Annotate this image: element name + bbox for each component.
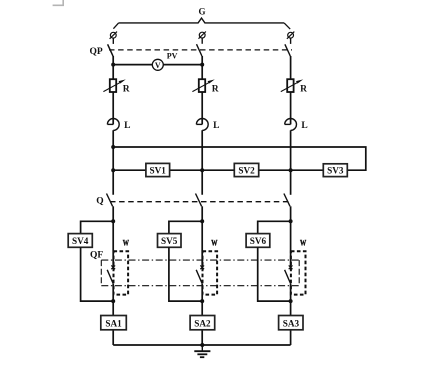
svg-text:L: L: [301, 121, 307, 131]
return wire from SV5: [169, 247, 202, 301]
breaker Q blade pole 3: [284, 194, 290, 207]
svg-text:Q: Q: [96, 197, 103, 207]
svg-text:L: L: [213, 121, 219, 131]
svg-text:SA1: SA1: [105, 318, 122, 328]
node tie-line feeder1: [111, 145, 115, 149]
breaker QF contact cross pole 1: [111, 265, 115, 269]
bottom earth bus: [113, 344, 290, 346]
node tap feeder1: [111, 219, 115, 223]
voltmeter line: [113, 64, 202, 66]
svg-text:R: R: [212, 85, 219, 95]
withdrawable cell dashed box 2: [203, 251, 218, 294]
node return feeder2: [200, 299, 204, 303]
node earth bus: [200, 343, 204, 347]
node SV-line feeder3: [289, 168, 293, 172]
linkage frame right edge: [298, 260, 300, 286]
resistor R2: [192, 79, 214, 92]
node PV-line feeder2: [200, 63, 204, 67]
wire bus to QP pole 3: [284, 23, 290, 29]
svg-text:SA2: SA2: [194, 318, 211, 328]
disconnector QP blade pole 3: [285, 44, 290, 56]
wire QP circle stub pole 2: [201, 38, 203, 44]
upper tie line to SV3: [113, 147, 366, 170]
breaker QF blade pole 3: [285, 270, 291, 284]
switch box SA2: [190, 316, 215, 330]
voltmeter PV: [152, 59, 163, 70]
svg-text:QP: QP: [90, 47, 103, 57]
resistor R3: [281, 79, 303, 92]
svg-text:SV2: SV2: [238, 165, 255, 175]
linkage frame top dash-dot line: [101, 259, 299, 261]
reactor L1: [107, 119, 119, 131]
wire QP circle stub pole 1: [112, 38, 114, 44]
svg-text:L: L: [124, 121, 130, 131]
disconnector QP contact circle pole 1: [110, 32, 117, 39]
switch box SA1: [101, 316, 127, 330]
svg-text:SV1: SV1: [150, 165, 167, 175]
relay box SV4: [68, 234, 92, 248]
node PV-line feeder1: [111, 63, 115, 67]
return wire from SV4: [81, 247, 114, 301]
linkage frame bottom dash-dot line: [101, 285, 299, 287]
switch box SA3: [279, 316, 303, 330]
svg-text:SV4: SV4: [72, 236, 89, 246]
node SV-line feeder2: [200, 168, 204, 172]
breaker Q blade pole 2: [196, 194, 202, 207]
wire feeder 2 upper section: [201, 56, 203, 124]
SV bus line: [113, 169, 323, 171]
wire feeder 2 bottom section: [201, 284, 203, 345]
svg-text:W: W: [300, 238, 307, 248]
relay box SV1: [146, 163, 170, 176]
wire feeder 1 middle section: [112, 130, 114, 195]
withdrawable cell dashed box 1: [114, 251, 129, 294]
breaker QF blade pole 1: [107, 270, 113, 284]
Q linkage dashed line: [110, 201, 292, 203]
svg-text:G: G: [198, 7, 205, 17]
node return feeder1: [111, 299, 115, 303]
node tap feeder2: [200, 219, 204, 223]
svg-text:V: V: [155, 61, 161, 70]
resistor R1: [103, 79, 125, 92]
node tap feeder3: [289, 219, 293, 223]
reactor L2: [196, 119, 208, 131]
disconnector QP blade pole 1: [108, 44, 113, 56]
wire feeder 3 lower-middle section: [290, 206, 292, 267]
wire QP circle stub pole 3: [290, 38, 292, 44]
breaker QF contact cross pole 2: [200, 265, 204, 269]
wire feeder 3 bottom section: [290, 284, 292, 345]
wire bus to QP pole 1: [113, 23, 118, 29]
bus G: [119, 18, 285, 23]
QP linkage dashed line: [109, 49, 292, 51]
svg-text:SA3: SA3: [283, 318, 300, 328]
reactor L3: [285, 119, 297, 131]
breaker QF contact cross pole 3: [289, 265, 293, 269]
linkage frame left edge: [100, 260, 102, 286]
svg-text:W: W: [211, 238, 218, 248]
svg-text:SV5: SV5: [161, 236, 178, 246]
relay box SV3: [323, 164, 347, 177]
tap wire to SV4: [81, 221, 114, 233]
wire feeder 1 upper section: [112, 56, 114, 124]
return wire from SV6: [258, 247, 291, 301]
withdrawable cell dashed box 3: [291, 251, 306, 294]
ground: [194, 345, 210, 357]
relay box SV6: [246, 234, 270, 248]
wire feeder 2 lower-middle section: [201, 206, 203, 267]
tap wire to SV5: [169, 221, 202, 233]
wire feeder 1 lower-middle section: [112, 206, 114, 267]
svg-text:SV3: SV3: [327, 166, 344, 176]
relay box SV5: [158, 234, 182, 248]
wire feeder 3 upper section: [290, 56, 292, 124]
svg-text:PV: PV: [167, 52, 178, 61]
disconnector QP blade pole 2: [197, 44, 202, 56]
disconnector QP contact circle pole 2: [199, 32, 206, 39]
svg-text:R: R: [123, 85, 130, 95]
svg-text:SV6: SV6: [250, 236, 267, 246]
scan artifact corner top-left: [53, 0, 64, 5]
relay box SV2: [234, 163, 258, 176]
wire feeder 2 middle section: [201, 130, 203, 195]
disconnector QP contact circle pole 3: [287, 32, 294, 39]
breaker QF blade pole 2: [196, 270, 202, 284]
node SV-line feeder1: [111, 168, 115, 172]
breaker Q blade pole 1: [107, 194, 113, 207]
svg-text:R: R: [300, 85, 307, 95]
svg-text:W: W: [123, 238, 130, 248]
wire feeder 1 bottom section: [112, 284, 114, 345]
node return feeder3: [289, 299, 293, 303]
tap wire to SV6: [258, 221, 291, 233]
wire feeder 3 middle section: [290, 130, 292, 195]
svg-text:QF: QF: [90, 251, 103, 261]
